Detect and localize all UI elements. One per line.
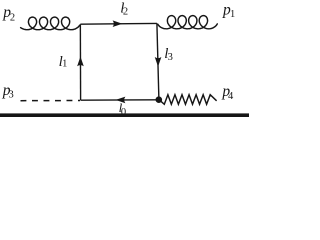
svg-text:1: 1 (230, 9, 235, 20)
arrow on l2 (113, 20, 123, 27)
zigzag p4 (159, 95, 216, 105)
svg-text:2: 2 (123, 6, 128, 17)
gluon p2 (21, 17, 80, 30)
wire l0 bottom (81, 99, 159, 101)
wire l2 top (80, 22, 157, 25)
svg-text:1: 1 (62, 59, 67, 70)
vertex dot (156, 96, 163, 103)
arrow on l3 (down) (155, 57, 162, 67)
svg-text:2: 2 (10, 12, 15, 23)
svg-text:0: 0 (121, 107, 126, 118)
wire l3 right (157, 23, 159, 99)
dashed line p3 (21, 100, 81, 102)
svg-text:4: 4 (228, 91, 234, 102)
bottom rule (0, 113, 249, 117)
svg-text:3: 3 (9, 89, 14, 100)
wire l1 left (79, 24, 81, 100)
gluon p1 (158, 16, 218, 29)
svg-text:3: 3 (168, 52, 173, 63)
arrow on l1 (up) (77, 57, 84, 67)
arrow on l0 (left) (116, 97, 126, 104)
